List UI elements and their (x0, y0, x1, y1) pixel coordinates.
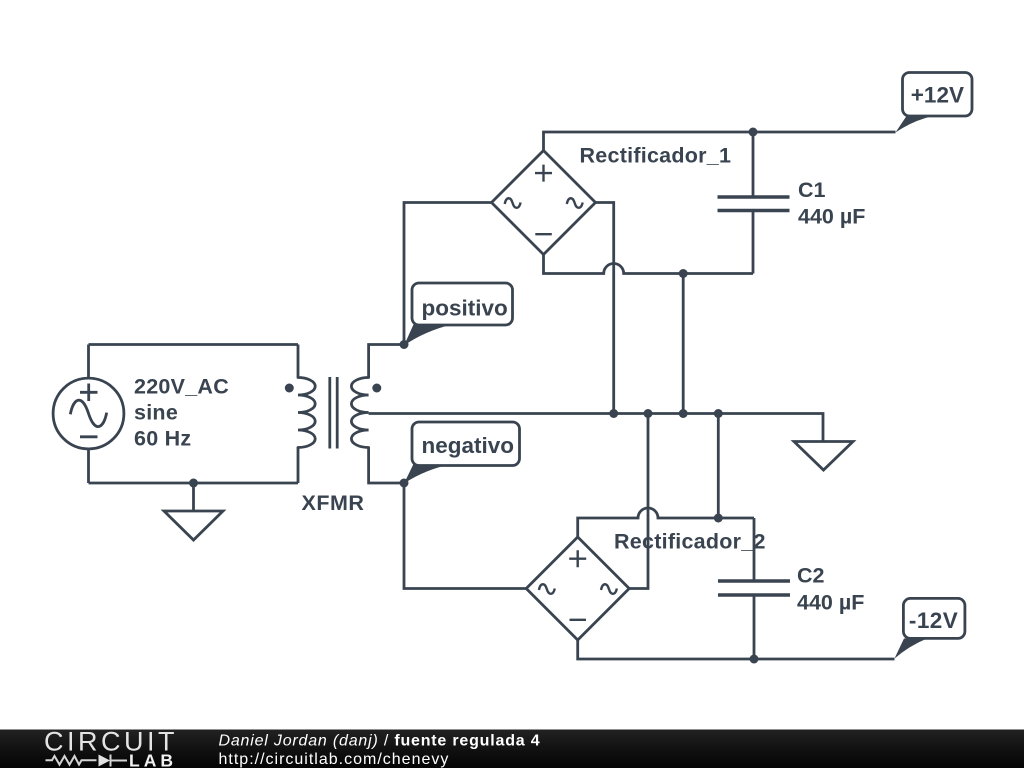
junction C2 bottom (750, 655, 759, 664)
wire negativo to rectifier 2 (404, 483, 526, 589)
svg-text:XFMR: XFMR (302, 491, 365, 515)
svg-text:positivo: positivo (422, 296, 508, 321)
junction C1 top (749, 128, 758, 137)
circuitlab logo (44, 727, 178, 768)
bridge rectifier Rectificador_2 (526, 537, 629, 640)
node positivo (400, 340, 409, 349)
wire rectifier2 top with hop (578, 508, 754, 537)
junction bus node d (714, 409, 723, 418)
transformer secondary polarity dot (372, 384, 381, 393)
wire bus to rectifier2 right vertex (629, 414, 648, 589)
label 220V_AC sine 60 Hz (134, 375, 229, 451)
wire bus to rectifier2 top wire (717, 414, 720, 519)
junction bus node a (609, 409, 618, 418)
transformer XFMR primary coil (298, 345, 315, 484)
transformer core (330, 377, 337, 449)
label C1 440 uF (798, 178, 865, 229)
net flag -12V (895, 598, 965, 658)
svg-text:Rectificador_1: Rectificador_1 (580, 144, 732, 168)
footer bar (0, 730, 1024, 768)
svg-text:440 µF: 440 µF (797, 591, 864, 615)
capacitor C2 (718, 518, 790, 659)
svg-text:sine: sine (134, 401, 178, 425)
capacitor C1 (718, 132, 790, 274)
svg-text:negativo: negativo (422, 433, 515, 458)
node negativo (400, 479, 409, 488)
svg-text:LAB: LAB (129, 751, 177, 768)
net flag +12V (896, 73, 973, 133)
label negativo callout (404, 422, 520, 484)
junction bus node c (679, 409, 688, 418)
junction bus node b (644, 409, 653, 418)
svg-text:Rectificador_2: Rectificador_2 (614, 530, 766, 554)
svg-text:440 µF: 440 µF (798, 205, 865, 229)
wire rectifier1 bottom with hop (544, 255, 754, 274)
svg-text:-12V: -12V (909, 608, 958, 633)
wire rectifier2 bottom (578, 640, 895, 659)
svg-text:C1: C1 (798, 178, 826, 202)
footer credit text (219, 733, 541, 768)
wire top of source loop (89, 343, 299, 346)
wire center tap bus (369, 414, 823, 442)
svg-text:+12V: +12V (911, 83, 964, 108)
transformer XFMR secondary coil (351, 345, 404, 484)
wire bottom of source loop (89, 482, 299, 485)
ac source V1 220V_AC (53, 345, 124, 484)
svg-text:C2: C2 (797, 564, 825, 588)
wire rectifier1 bottom to bus (682, 274, 685, 414)
svg-text:60 Hz: 60 Hz (134, 427, 191, 451)
wire rectifier1 right to bus (596, 203, 614, 414)
bridge rectifier Rectificador_1 (492, 151, 596, 255)
svg-text:Daniel Jordan (danj) / fuente: Daniel Jordan (danj) / fuente regulada 4 (219, 733, 541, 750)
ground (164, 483, 223, 540)
svg-text:http://circuitlab.com/chenevy: http://circuitlab.com/chenevy (219, 751, 450, 768)
transformer primary polarity dot (285, 384, 294, 393)
junction rectifier2 top (714, 514, 723, 523)
wire rectifier1 top to +12V (544, 132, 896, 151)
ground right (794, 442, 853, 471)
junction ground node (189, 479, 198, 488)
label C2 440 uF (797, 564, 864, 615)
label positivo callout (404, 283, 513, 346)
svg-text:220V_AC: 220V_AC (134, 375, 229, 399)
junction rectifier1 bottom (679, 269, 688, 278)
wire positivo to rectifier 1 (404, 203, 492, 345)
